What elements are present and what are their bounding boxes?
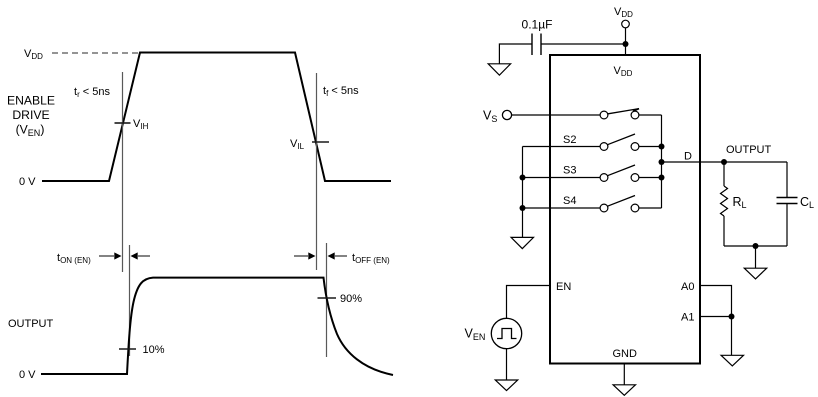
ground (input bus) [511, 237, 533, 248]
svg-text:GND: GND [613, 348, 638, 360]
wire node to box [625, 44, 627, 55]
svg-text:tOFF (EN): tOFF (EN) [352, 252, 390, 265]
arrow tOFF left [294, 252, 316, 259]
switch S1 [600, 109, 639, 119]
svg-text:S4: S4 [563, 195, 576, 207]
wire VEN to ground [506, 349, 508, 380]
label CL [800, 195, 814, 210]
label VDD level [24, 48, 43, 61]
label 10% [143, 344, 165, 356]
capacitor C1 0.1uF [532, 34, 541, 56]
svg-text:VDD: VDD [24, 48, 43, 61]
wire D to output [662, 161, 788, 163]
svg-text:S3: S3 [563, 165, 576, 177]
pin label GND [613, 348, 638, 360]
wire S1 to bus [639, 114, 662, 116]
svg-text:0 V: 0 V [19, 176, 36, 188]
wire S2 to bus [639, 146, 662, 148]
switch S3 [600, 165, 639, 181]
wire to load ground [755, 246, 757, 268]
marker line A (VIH crossing) [122, 72, 124, 272]
IC box U1 [550, 55, 700, 364]
wire cap to ground [499, 44, 532, 64]
ground (load) [744, 268, 766, 279]
enable drive waveform [42, 53, 391, 182]
svg-text:DRIVE: DRIVE [12, 108, 49, 122]
junction node VDD [623, 41, 629, 47]
ground (GND pin) [613, 385, 635, 396]
switch S2 [600, 134, 639, 150]
svg-text:CL: CL [800, 195, 814, 210]
arrow tON left [99, 252, 122, 259]
ground (bypass cap) [488, 64, 510, 75]
svg-text:VDD: VDD [614, 6, 633, 19]
wire bus to S2 [523, 146, 601, 148]
svg-text:VDD: VDD [614, 65, 633, 78]
wire bus to S3 [523, 177, 601, 179]
arrow tON right [131, 252, 151, 259]
wire GND pin [623, 364, 625, 385]
wire A1 [700, 316, 732, 318]
label VS [483, 109, 497, 125]
junction S3-left bus [520, 175, 526, 181]
label S2 [563, 134, 576, 146]
label tON (EN) [57, 252, 91, 265]
svg-text:EN: EN [556, 281, 571, 293]
junction D-bus [659, 159, 665, 165]
wire cap to node [541, 43, 626, 45]
label tOFF (EN) [352, 252, 390, 265]
svg-text:A1: A1 [681, 312, 694, 324]
label S3 [563, 165, 576, 177]
svg-text:VS: VS [483, 109, 497, 125]
svg-text:A0: A0 [681, 281, 694, 293]
svg-text:0 V: 0 V [19, 369, 36, 381]
svg-text:VIL: VIL [290, 138, 305, 151]
svg-text:tr < 5ns: tr < 5ns [74, 86, 111, 99]
wire A1 to ground [731, 317, 733, 356]
wire VS to switch S1 [512, 114, 600, 116]
svg-text:VEN: VEN [465, 327, 486, 343]
label OUTPUT [726, 144, 772, 156]
tick 90% [318, 297, 337, 299]
svg-text:10%: 10% [143, 344, 165, 356]
svg-text:0.1µF: 0.1µF [522, 18, 553, 32]
svg-text:ENABLE: ENABLE [7, 94, 55, 108]
wire A0 [700, 286, 732, 317]
label VEN [465, 327, 486, 343]
junction S3-bus [659, 175, 665, 181]
terminal VS [502, 110, 511, 119]
marker line C (VIL crossing) [316, 73, 318, 270]
marker line B (10% crossing) [129, 245, 131, 356]
wire EN to VEN source [507, 286, 551, 319]
ground (VEN) [495, 380, 517, 391]
label 0 V (enable) [19, 176, 36, 188]
switch S4 [600, 196, 639, 212]
svg-text:90%: 90% [340, 293, 362, 305]
svg-text:OUTPUT: OUTPUT [8, 318, 54, 330]
junction A0-A1 [729, 314, 735, 320]
junction S2-bus [659, 144, 665, 150]
right bus (drain) [661, 115, 663, 208]
pin label A0 [681, 281, 694, 293]
wire bus to S4 [523, 207, 601, 209]
label 90% [340, 293, 362, 305]
junction output-RL [721, 159, 727, 165]
label 0 V (output) [19, 369, 36, 381]
terminal VDD [622, 20, 630, 28]
svg-text:D: D [684, 151, 692, 163]
svg-text:VIH: VIH [133, 118, 149, 131]
label VIH [133, 118, 149, 131]
label VIL [290, 138, 305, 151]
svg-text:tf < 5ns: tf < 5ns [323, 85, 359, 98]
resistor RL [721, 162, 728, 246]
label OUTPUT (waveform) [8, 318, 54, 330]
marker line D (90% crossing) [326, 243, 328, 357]
svg-text:OUTPUT: OUTPUT [726, 144, 772, 156]
output waveform [41, 278, 393, 375]
svg-text:RL: RL [733, 195, 747, 210]
ground (address pins) [721, 355, 743, 366]
svg-text:tON (EN): tON (EN) [57, 252, 91, 265]
junction S4-left bus [520, 205, 526, 211]
svg-text:S2: S2 [563, 134, 576, 146]
svg-text:(VEN): (VEN) [16, 123, 45, 139]
pin label A1 [681, 312, 694, 324]
wire VDD terminal to node [625, 28, 627, 45]
capacitor CL [777, 162, 798, 246]
pin label EN [556, 281, 571, 293]
wire S3 to bus [639, 177, 662, 179]
pin label VDD [614, 65, 633, 78]
tick VIL [312, 141, 329, 143]
pulse source VEN [491, 318, 521, 348]
arrow tOFF right [328, 252, 348, 259]
label D [684, 151, 692, 163]
junction load ground [753, 243, 759, 249]
label tr < 5ns [74, 86, 111, 99]
wire S4 to bus [639, 207, 662, 209]
dashed VDD reference line [52, 52, 140, 54]
label tf < 5ns [323, 85, 359, 98]
left bus (S2-S4 inputs) [522, 147, 524, 238]
label RL [733, 195, 747, 210]
label S4 [563, 195, 576, 207]
label ENABLE DRIVE (VEN) [7, 94, 55, 139]
tick VIH [115, 122, 131, 124]
label 0.1uF [522, 18, 553, 32]
wire RL-CL bottom [724, 245, 787, 247]
label VDD supply [614, 6, 633, 19]
tick 10% [119, 348, 136, 350]
